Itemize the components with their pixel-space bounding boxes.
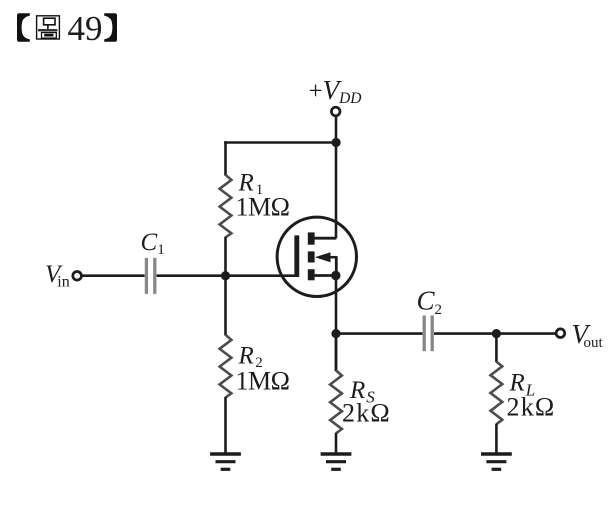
capacitor C1	[146, 258, 154, 294]
terminal Vin	[73, 272, 82, 281]
wire bias middle (R1 to R2, gate node)	[224, 237, 227, 336]
resistor R1	[220, 175, 232, 238]
Q1 channel segment (source)	[308, 269, 315, 280]
svg-text:2kΩ: 2kΩ	[507, 393, 556, 422]
svg-text:C2: C2	[417, 286, 443, 319]
ground (R2)	[210, 454, 241, 469]
wire source to RS	[335, 334, 338, 371]
capacitor C2	[424, 316, 432, 352]
svg-text:+VDD: +VDD	[309, 75, 362, 107]
wire Vin to C1	[82, 274, 145, 277]
svg-text:Vin: Vin	[45, 261, 70, 291]
Q1 body arrowhead	[315, 252, 331, 262]
Q1 body arrow shaft	[327, 256, 338, 259]
Q1 drain connector	[314, 237, 337, 240]
junction dot gate node	[221, 271, 230, 280]
wire C1 to gate	[157, 274, 297, 277]
wire RS to ground	[335, 433, 338, 454]
wire source vertical	[335, 276, 338, 372]
svg-text:2kΩ: 2kΩ	[342, 399, 391, 428]
title 【圖 49】	[17, 9, 117, 48]
wire C2 to Vout	[434, 332, 556, 335]
svg-text:C1: C1	[141, 229, 165, 258]
transistor Q1 (MOSFET)	[277, 217, 356, 296]
wire output rail to C2	[336, 332, 422, 335]
terminal +VDD	[331, 107, 340, 116]
svg-text:49: 49	[68, 9, 103, 48]
resistor RL	[491, 362, 503, 425]
wire RL node down	[495, 334, 498, 363]
svg-text:Vout: Vout	[572, 319, 604, 351]
Q1 body circle	[277, 217, 356, 296]
svg-text:1MΩ: 1MΩ	[236, 193, 290, 222]
junction dot RL node	[492, 329, 501, 338]
wire bias upper (rail to R1)	[224, 141, 227, 175]
Q1 channel segment (drain)	[308, 232, 315, 244]
Q1 body-source vertical	[335, 257, 338, 275]
wire top rail	[224, 141, 336, 144]
junction dot output node	[331, 329, 340, 338]
ground (RS)	[321, 454, 352, 469]
Q1 gate bar	[294, 235, 299, 277]
wire bias lower (R2 to ground)	[224, 397, 227, 454]
svg-text:1MΩ: 1MΩ	[236, 367, 290, 396]
junction dot VDD rail	[332, 138, 341, 147]
resistor R2	[220, 335, 232, 398]
resistor RS	[330, 370, 342, 433]
Q1 source connector	[314, 274, 337, 277]
wire RL to ground	[495, 424, 498, 454]
Q1 channel segment (body)	[308, 251, 315, 262]
junction dot source-body	[331, 271, 340, 280]
wire VDD vertical to drain	[335, 116, 338, 238]
terminal Vout	[556, 329, 565, 338]
ground (RL)	[481, 454, 512, 469]
